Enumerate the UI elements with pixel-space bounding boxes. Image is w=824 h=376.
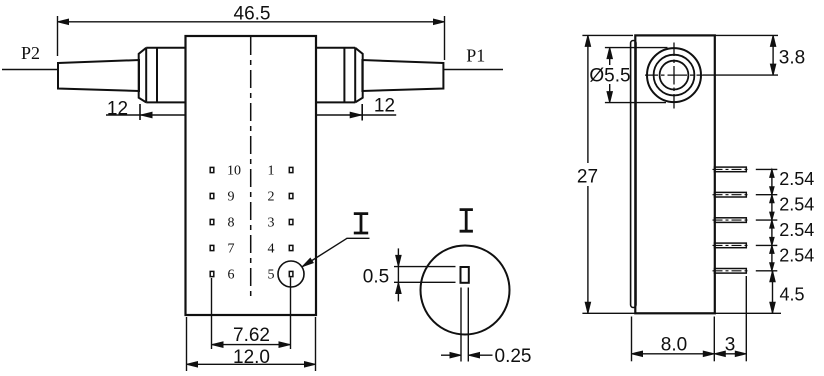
svg-text:12: 12 [107,98,128,119]
svg-text:12: 12 [374,96,395,117]
svg-text:4.5: 4.5 [779,285,804,305]
svg-text:46.5: 46.5 [234,4,271,25]
svg-text:P1: P1 [466,46,485,66]
svg-text:7: 7 [228,241,235,256]
svg-text:7.62: 7.62 [233,325,270,346]
svg-text:3: 3 [725,335,736,356]
svg-text:10: 10 [227,163,241,178]
svg-text:0.5: 0.5 [363,267,389,288]
svg-text:0.25: 0.25 [495,346,532,367]
svg-text:2.54: 2.54 [779,169,814,189]
svg-text:9: 9 [228,189,235,204]
svg-text:27: 27 [577,167,598,188]
svg-text:8: 8 [228,215,235,230]
svg-text:5: 5 [268,267,275,282]
svg-text:2: 2 [268,189,275,204]
svg-text:P2: P2 [21,43,40,63]
svg-text:12.0: 12.0 [233,347,270,368]
svg-text:8.0: 8.0 [661,335,687,356]
svg-text:Ø5.5: Ø5.5 [589,65,630,86]
svg-text:4: 4 [268,241,275,256]
svg-text:2.54: 2.54 [779,195,814,215]
svg-text:3.8: 3.8 [779,48,805,69]
svg-text:2.54: 2.54 [779,245,814,265]
svg-text:3: 3 [268,215,275,230]
svg-text:2.54: 2.54 [779,220,814,240]
svg-text:6: 6 [228,267,235,282]
svg-text:1: 1 [268,163,275,178]
